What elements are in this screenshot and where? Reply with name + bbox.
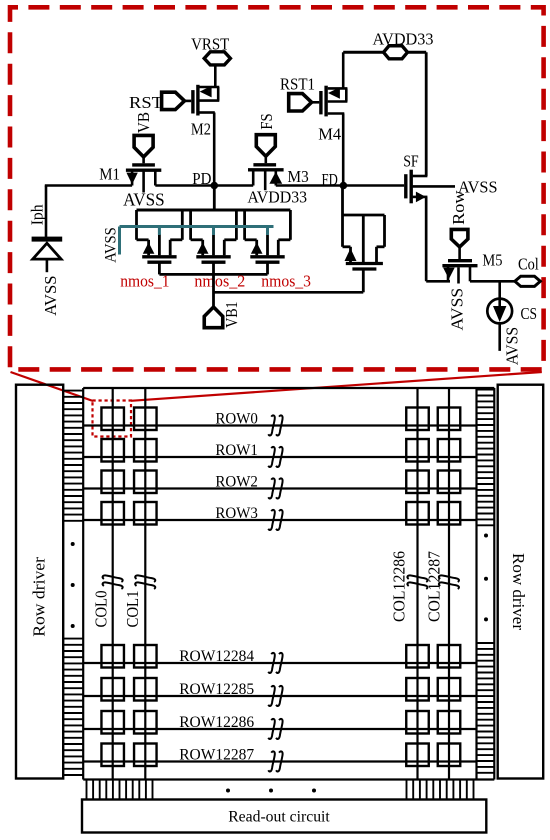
- port FS: [256, 135, 275, 157]
- svg-text:COL0: COL0: [91, 591, 110, 628]
- port RST1: [289, 94, 312, 111]
- wire ROW2: [83, 487, 476, 489]
- wire M5 source to Col: [470, 280, 515, 283]
- svg-text:RST1: RST1: [280, 74, 315, 93]
- break symbol ROW0: [268, 415, 275, 435]
- pixel cell: [101, 744, 124, 767]
- svg-text:AVSS: AVSS: [103, 227, 120, 262]
- transistor SF: [404, 174, 407, 198]
- red leader line right: [131, 372, 542, 401]
- row driver box right: [498, 385, 544, 779]
- row driver box left: [16, 385, 63, 779]
- break symbol ROW12284: [268, 653, 275, 673]
- svg-text:VB: VB: [134, 112, 153, 133]
- pixel cell: [101, 502, 124, 525]
- svg-text:M3: M3: [288, 167, 309, 186]
- transistor nmos_2: [189, 210, 192, 240]
- break symbol ROW1: [268, 447, 275, 467]
- port VRST hexagon: [204, 52, 230, 65]
- svg-text:Row driver: Row driver: [30, 557, 49, 637]
- pixel cell: [438, 439, 461, 462]
- wire ROW12284: [83, 662, 476, 664]
- ellipsis dots column bus: [226, 789, 230, 793]
- column bus comb right: [406, 780, 408, 800]
- pixel cell: [101, 645, 124, 668]
- break symbol ROW12286: [268, 719, 275, 739]
- wire nmos source rail: [159, 273, 267, 276]
- port Col hexagon: [515, 276, 541, 286]
- pixel cell: [438, 645, 461, 668]
- pixel cell: [101, 711, 124, 734]
- svg-text:Col: Col: [518, 254, 539, 273]
- row bus comb right: [477, 389, 494, 391]
- transistor M1: [142, 155, 145, 163]
- current source CS: [498, 281, 501, 351]
- right comb inner edge: [493, 388, 495, 780]
- svg-text:ROW12286: ROW12286: [179, 714, 254, 731]
- svg-text:Iph: Iph: [27, 204, 46, 225]
- break symbol COL1: [135, 575, 155, 582]
- svg-text:COL12286: COL12286: [389, 551, 408, 622]
- pixel cell: [134, 471, 157, 494]
- svg-text:ROW2: ROW2: [215, 473, 258, 490]
- pixel cell: [134, 408, 157, 431]
- wire ROW12286: [83, 728, 476, 730]
- node PD: [211, 182, 219, 190]
- svg-text:AVDD33: AVDD33: [373, 29, 434, 48]
- svg-text:AVSS: AVSS: [502, 327, 521, 365]
- svg-text:ROW0: ROW0: [215, 410, 258, 427]
- wire ROW1: [83, 456, 476, 458]
- svg-text:COL1: COL1: [123, 591, 142, 628]
- pixel cell: [438, 502, 461, 525]
- array right rail: [475, 388, 477, 780]
- node FD: [340, 182, 348, 190]
- wire M5 drain link: [426, 280, 450, 283]
- wire COL1: [144, 388, 146, 780]
- svg-text:FS: FS: [257, 113, 276, 129]
- wire photodiode to M1 source: [45, 184, 132, 187]
- svg-text:CS: CS: [521, 304, 538, 323]
- pixel cell: [134, 502, 157, 525]
- break symbol ROW12287: [268, 751, 275, 771]
- wire AVDD33 rail: [343, 51, 383, 54]
- port AVDD33 hexagon: [384, 46, 408, 59]
- pixel cell: [134, 439, 157, 462]
- svg-text:nmos_2: nmos_2: [194, 272, 245, 291]
- svg-text:VRST: VRST: [191, 34, 230, 53]
- svg-text:FD: FD: [322, 170, 338, 189]
- red dotted pixel highlight: [93, 401, 132, 437]
- svg-text:M4: M4: [318, 124, 341, 143]
- wire M3 to FD and SF gate: [276, 184, 404, 187]
- break symbol ROW12285: [268, 686, 275, 706]
- wire COL0: [112, 388, 114, 780]
- break symbol COL0: [103, 575, 123, 582]
- svg-text:nmos_3: nmos_3: [261, 272, 311, 291]
- column bus comb left: [86, 780, 88, 800]
- svg-text:ROW12287: ROW12287: [179, 746, 254, 763]
- svg-text:nmos_1: nmos_1: [120, 272, 169, 291]
- svg-text:AVSS: AVSS: [123, 190, 165, 210]
- svg-text:ROW12284: ROW12284: [179, 648, 254, 665]
- pixel cell: [406, 408, 429, 431]
- svg-text:AVDD33: AVDD33: [247, 187, 307, 206]
- wire ROW12287: [83, 760, 476, 762]
- port VB: [134, 135, 153, 157]
- svg-text:ROW12285: ROW12285: [179, 681, 254, 698]
- transistor M5: [458, 247, 461, 259]
- wire nmos drain rail: [137, 209, 291, 212]
- break symbol ROW2: [268, 478, 275, 498]
- pixel cell: [406, 439, 429, 462]
- break symbol ROW3: [268, 510, 275, 530]
- svg-text:M5: M5: [482, 251, 502, 270]
- ellipsis dots right bus: [484, 534, 488, 538]
- svg-text:Row: Row: [449, 190, 468, 225]
- wire ROW12285: [83, 695, 476, 697]
- transistor nmos_1: [135, 210, 138, 240]
- svg-text:ROW3: ROW3: [215, 505, 258, 522]
- pixel cell: [406, 744, 429, 767]
- pixel cell: [101, 439, 124, 462]
- svg-text:PD: PD: [192, 169, 211, 188]
- array top edge: [83, 387, 494, 389]
- pixel cell: [438, 744, 461, 767]
- wire nmos gate bus (teal): [120, 225, 274, 228]
- svg-text:Read-out circuit: Read-out circuit: [228, 809, 330, 826]
- ellipsis dots left bus: [71, 542, 75, 546]
- pixel cell: [101, 678, 124, 701]
- transistor M2: [185, 100, 192, 103]
- break symbol COL12286: [407, 575, 427, 582]
- pixel cell: [134, 645, 157, 668]
- svg-text:ROW1: ROW1: [215, 442, 258, 459]
- break symbol COL12287: [439, 575, 459, 582]
- wire PD stem: [213, 186, 216, 211]
- port RST: [162, 92, 185, 109]
- transistor M4: [311, 101, 320, 104]
- pixel cell: [134, 744, 157, 767]
- array left rail: [82, 388, 84, 780]
- port Row: [451, 229, 468, 247]
- svg-text:Row driver: Row driver: [509, 553, 528, 630]
- wire VB1 stem: [212, 274, 215, 307]
- pixel cell: [406, 502, 429, 525]
- pixel cell: [406, 645, 429, 668]
- port VB1: [204, 307, 223, 328]
- pixel cell: [406, 471, 429, 494]
- pixel cell: [134, 678, 157, 701]
- pixel cell: [438, 678, 461, 701]
- pixel cell: [134, 711, 157, 734]
- transistor M3: [264, 155, 267, 164]
- photodiode Iph: [32, 237, 63, 242]
- svg-text:VB1: VB1: [222, 302, 241, 328]
- svg-text:COL12287: COL12287: [425, 551, 444, 622]
- svg-text:AVSS: AVSS: [448, 288, 467, 331]
- svg-text:AVSS: AVSS: [41, 276, 60, 316]
- transistor cascode diode-connected: [341, 186, 344, 247]
- row bus comb left: [63, 390, 83, 392]
- red leader line left: [11, 372, 94, 401]
- transistor nmos_3: [243, 210, 246, 240]
- wire VB1 to cascode bulk: [214, 291, 364, 294]
- svg-text:M1: M1: [99, 164, 120, 183]
- pixel cell: [406, 678, 429, 701]
- svg-text:SF: SF: [403, 151, 419, 170]
- pixel cell: [101, 408, 124, 431]
- wire M1 to PD: [155, 184, 253, 187]
- dashed red callout border: [10, 7, 544, 369]
- pixel cell: [438, 408, 461, 431]
- svg-text:RST: RST: [129, 93, 164, 112]
- read-out circuit box: [82, 800, 486, 833]
- wire COL12286: [416, 388, 418, 780]
- wire ROW3: [83, 519, 476, 521]
- svg-text:M2: M2: [191, 119, 211, 138]
- array bottom edge: [83, 778, 494, 780]
- wire ROW0: [83, 424, 476, 426]
- pixel cell: [406, 711, 429, 734]
- wire COL12287: [448, 388, 450, 780]
- pixel cell: [438, 711, 461, 734]
- pixel cell: [101, 471, 124, 494]
- wire SF source to M5: [425, 197, 428, 281]
- pixel cell: [438, 471, 461, 494]
